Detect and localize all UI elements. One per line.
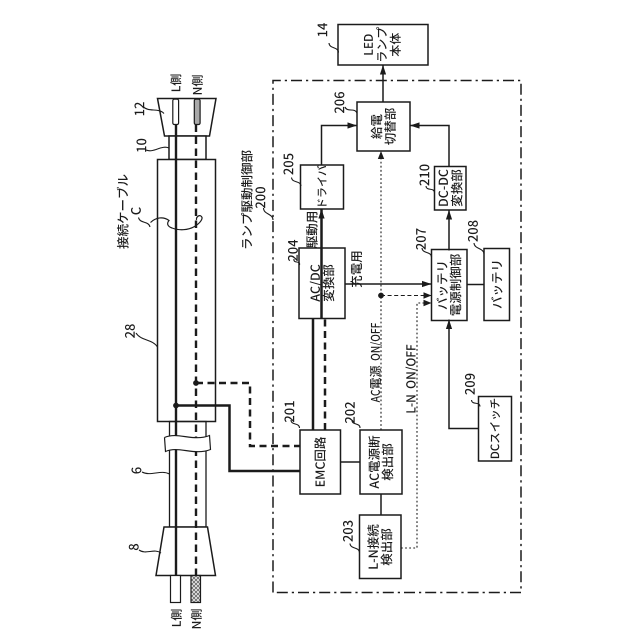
reference 28 — [125, 324, 135, 338]
tube body 28 — [158, 160, 216, 422]
block DC-DC変換部 210 — [435, 167, 467, 211]
leader for 10 — [146, 147, 169, 151]
block バッテリ電源制御部 207 — [432, 250, 468, 321]
reference 8 — [129, 544, 139, 550]
wire N (dashed, in tube) — [195, 125, 197, 576]
reference 204 — [288, 240, 298, 261]
reference C — [131, 207, 141, 214]
leader for 208 — [474, 243, 484, 254]
reference 200 — [255, 187, 265, 208]
reference 205 — [283, 154, 293, 175]
block L-N接続検出部 203 — [360, 515, 402, 579]
label 接続ケーブル (connection cable) — [117, 175, 129, 249]
leader for 210 — [426, 186, 435, 193]
label L側 (top) — [170, 74, 181, 91]
cable band (tie) — [165, 436, 211, 452]
signal branch to バッテリ電源制御部 (dashed) — [381, 292, 432, 298]
pin L (top connector) — [173, 99, 179, 124]
wire EMC to AC/DC (solid) — [312, 319, 315, 431]
reference 202 — [345, 402, 355, 423]
wire 給電切替部 to LED lamp — [380, 65, 386, 102]
lamp drive control unit frame 200 (dash-dot) — [273, 81, 521, 593]
reference 207 — [416, 229, 426, 250]
reference 6 — [131, 467, 141, 473]
reference 208 — [468, 221, 478, 242]
leader for 204 — [294, 259, 300, 265]
block AC/DC変換部 204 — [299, 248, 345, 319]
reference 10 — [136, 139, 146, 152]
signal AC電源 ON/OFF (dotted, to 給電切替部) — [378, 151, 384, 430]
wire AC/DC to ドライバ (駆動用, thick) — [318, 209, 324, 319]
label L側 (bottom) — [171, 609, 182, 626]
label N側 (bottom) — [191, 609, 202, 628]
wire EMC to AC電源断検出部 — [341, 461, 361, 463]
wavy brace C across tube — [151, 216, 203, 230]
wire DC-DC to 給電切替部 — [410, 122, 449, 166]
reference 210 — [419, 165, 429, 186]
connector housing 12 (lamp-side plug) — [158, 99, 217, 137]
leader for 14 — [329, 43, 339, 53]
leader for 207 — [422, 248, 432, 257]
plug housing 8 — [156, 527, 216, 576]
reference 203 — [343, 521, 353, 542]
block DCスイッチ 209 — [479, 397, 512, 462]
junction node on wire N — [193, 380, 199, 386]
reference 201 — [284, 401, 294, 422]
label ランプ駆動制御部 — [241, 150, 253, 248]
leader for 203 — [350, 544, 360, 553]
label AC電源 ON/OFF — [370, 323, 382, 402]
wire バッテリ電源制御部 to バッテリ — [467, 284, 485, 286]
wire AC電源断検出部 to L-N接続検出部 — [380, 494, 382, 515]
reference 12 — [134, 102, 144, 115]
junction node on AC電源 signal — [378, 293, 384, 299]
label L-N ON/OFF — [406, 345, 418, 413]
leader for 205 — [292, 178, 302, 187]
prong L (plug) — [171, 576, 181, 603]
leader for 201 — [291, 420, 300, 428]
leader for 8 — [139, 550, 161, 553]
leader for 209 — [472, 400, 481, 407]
label N側 (top) — [192, 75, 203, 94]
reference 14 — [318, 23, 328, 36]
wire DCスイッチ to バッテリ電源制御部 — [446, 320, 479, 429]
block AC電源断検出部 202 — [360, 430, 402, 494]
wire バッテリ電源制御部 to DC-DC — [446, 210, 452, 251]
leader for 28 — [136, 333, 158, 347]
wire L to EMC (thick) — [176, 406, 300, 472]
leader for 206 — [345, 107, 357, 113]
wire N to EMC (thick dashed) — [196, 383, 300, 446]
reference 206 — [334, 92, 344, 113]
leader for C — [139, 218, 151, 228]
block ドライバ 205 (driver) — [301, 165, 344, 209]
block バッテリ 208 — [484, 249, 510, 321]
wire EMC to AC/DC (dashed) — [324, 319, 327, 431]
prong N (plug, hatched) — [191, 576, 201, 603]
leader for 12 — [143, 107, 164, 114]
leader for 200 — [264, 208, 274, 220]
cable sleeve 6 — [170, 422, 207, 528]
reference 209 — [465, 374, 475, 395]
leader for 202 — [352, 420, 360, 428]
block 給電切替部 206 (power feed switching) — [357, 102, 410, 151]
wire AC/DC to バッテリ電源制御部 (充電用) — [345, 281, 432, 287]
leader for 6 — [142, 472, 170, 474]
pin N (top connector, shaded) — [194, 99, 200, 124]
neck 10 — [169, 136, 206, 160]
signal L-N ON/OFF (dotted) — [401, 300, 432, 548]
block LED lamp body 14 — [338, 25, 428, 66]
wire L (solid, in tube) — [175, 125, 177, 576]
label 充電用 — [350, 252, 362, 288]
block EMC回路 201 — [300, 430, 341, 494]
label 駆動用 — [306, 212, 318, 248]
wire ドライバ to 給電切替部 — [322, 122, 358, 165]
junction node on wire L — [173, 403, 179, 409]
